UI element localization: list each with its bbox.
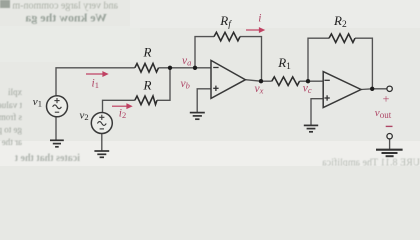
svg-text:+: + — [383, 92, 390, 106]
svg-text:ge to p: ge to p — [0, 125, 22, 135]
svg-text:ar the t: ar the t — [0, 137, 22, 147]
svg-text:vout: vout — [375, 107, 392, 120]
svg-text:i2: i2 — [119, 107, 126, 120]
svg-text:v1: v1 — [33, 96, 42, 109]
svg-text:s from: s from — [0, 112, 22, 122]
svg-text:vx: vx — [255, 83, 264, 96]
svg-text:We know the ga: We know the ga — [25, 11, 107, 25]
svg-text:xpli: xpli — [7, 87, 22, 97]
svg-text:v2: v2 — [80, 109, 89, 122]
svg-text:vb: vb — [181, 78, 190, 91]
svg-text:URE 8.11 The amplifica: URE 8.11 The amplifica — [322, 158, 420, 167]
svg-text:va: va — [182, 55, 191, 68]
svg-text:i1: i1 — [92, 78, 99, 91]
svg-text:icates that the t: icates that the t — [14, 153, 80, 164]
svg-text:R: R — [143, 44, 152, 59]
svg-text:vc: vc — [303, 82, 312, 95]
svg-text:i: i — [258, 12, 261, 24]
svg-text:R: R — [143, 78, 152, 93]
svg-text:t value: t value — [0, 100, 22, 110]
